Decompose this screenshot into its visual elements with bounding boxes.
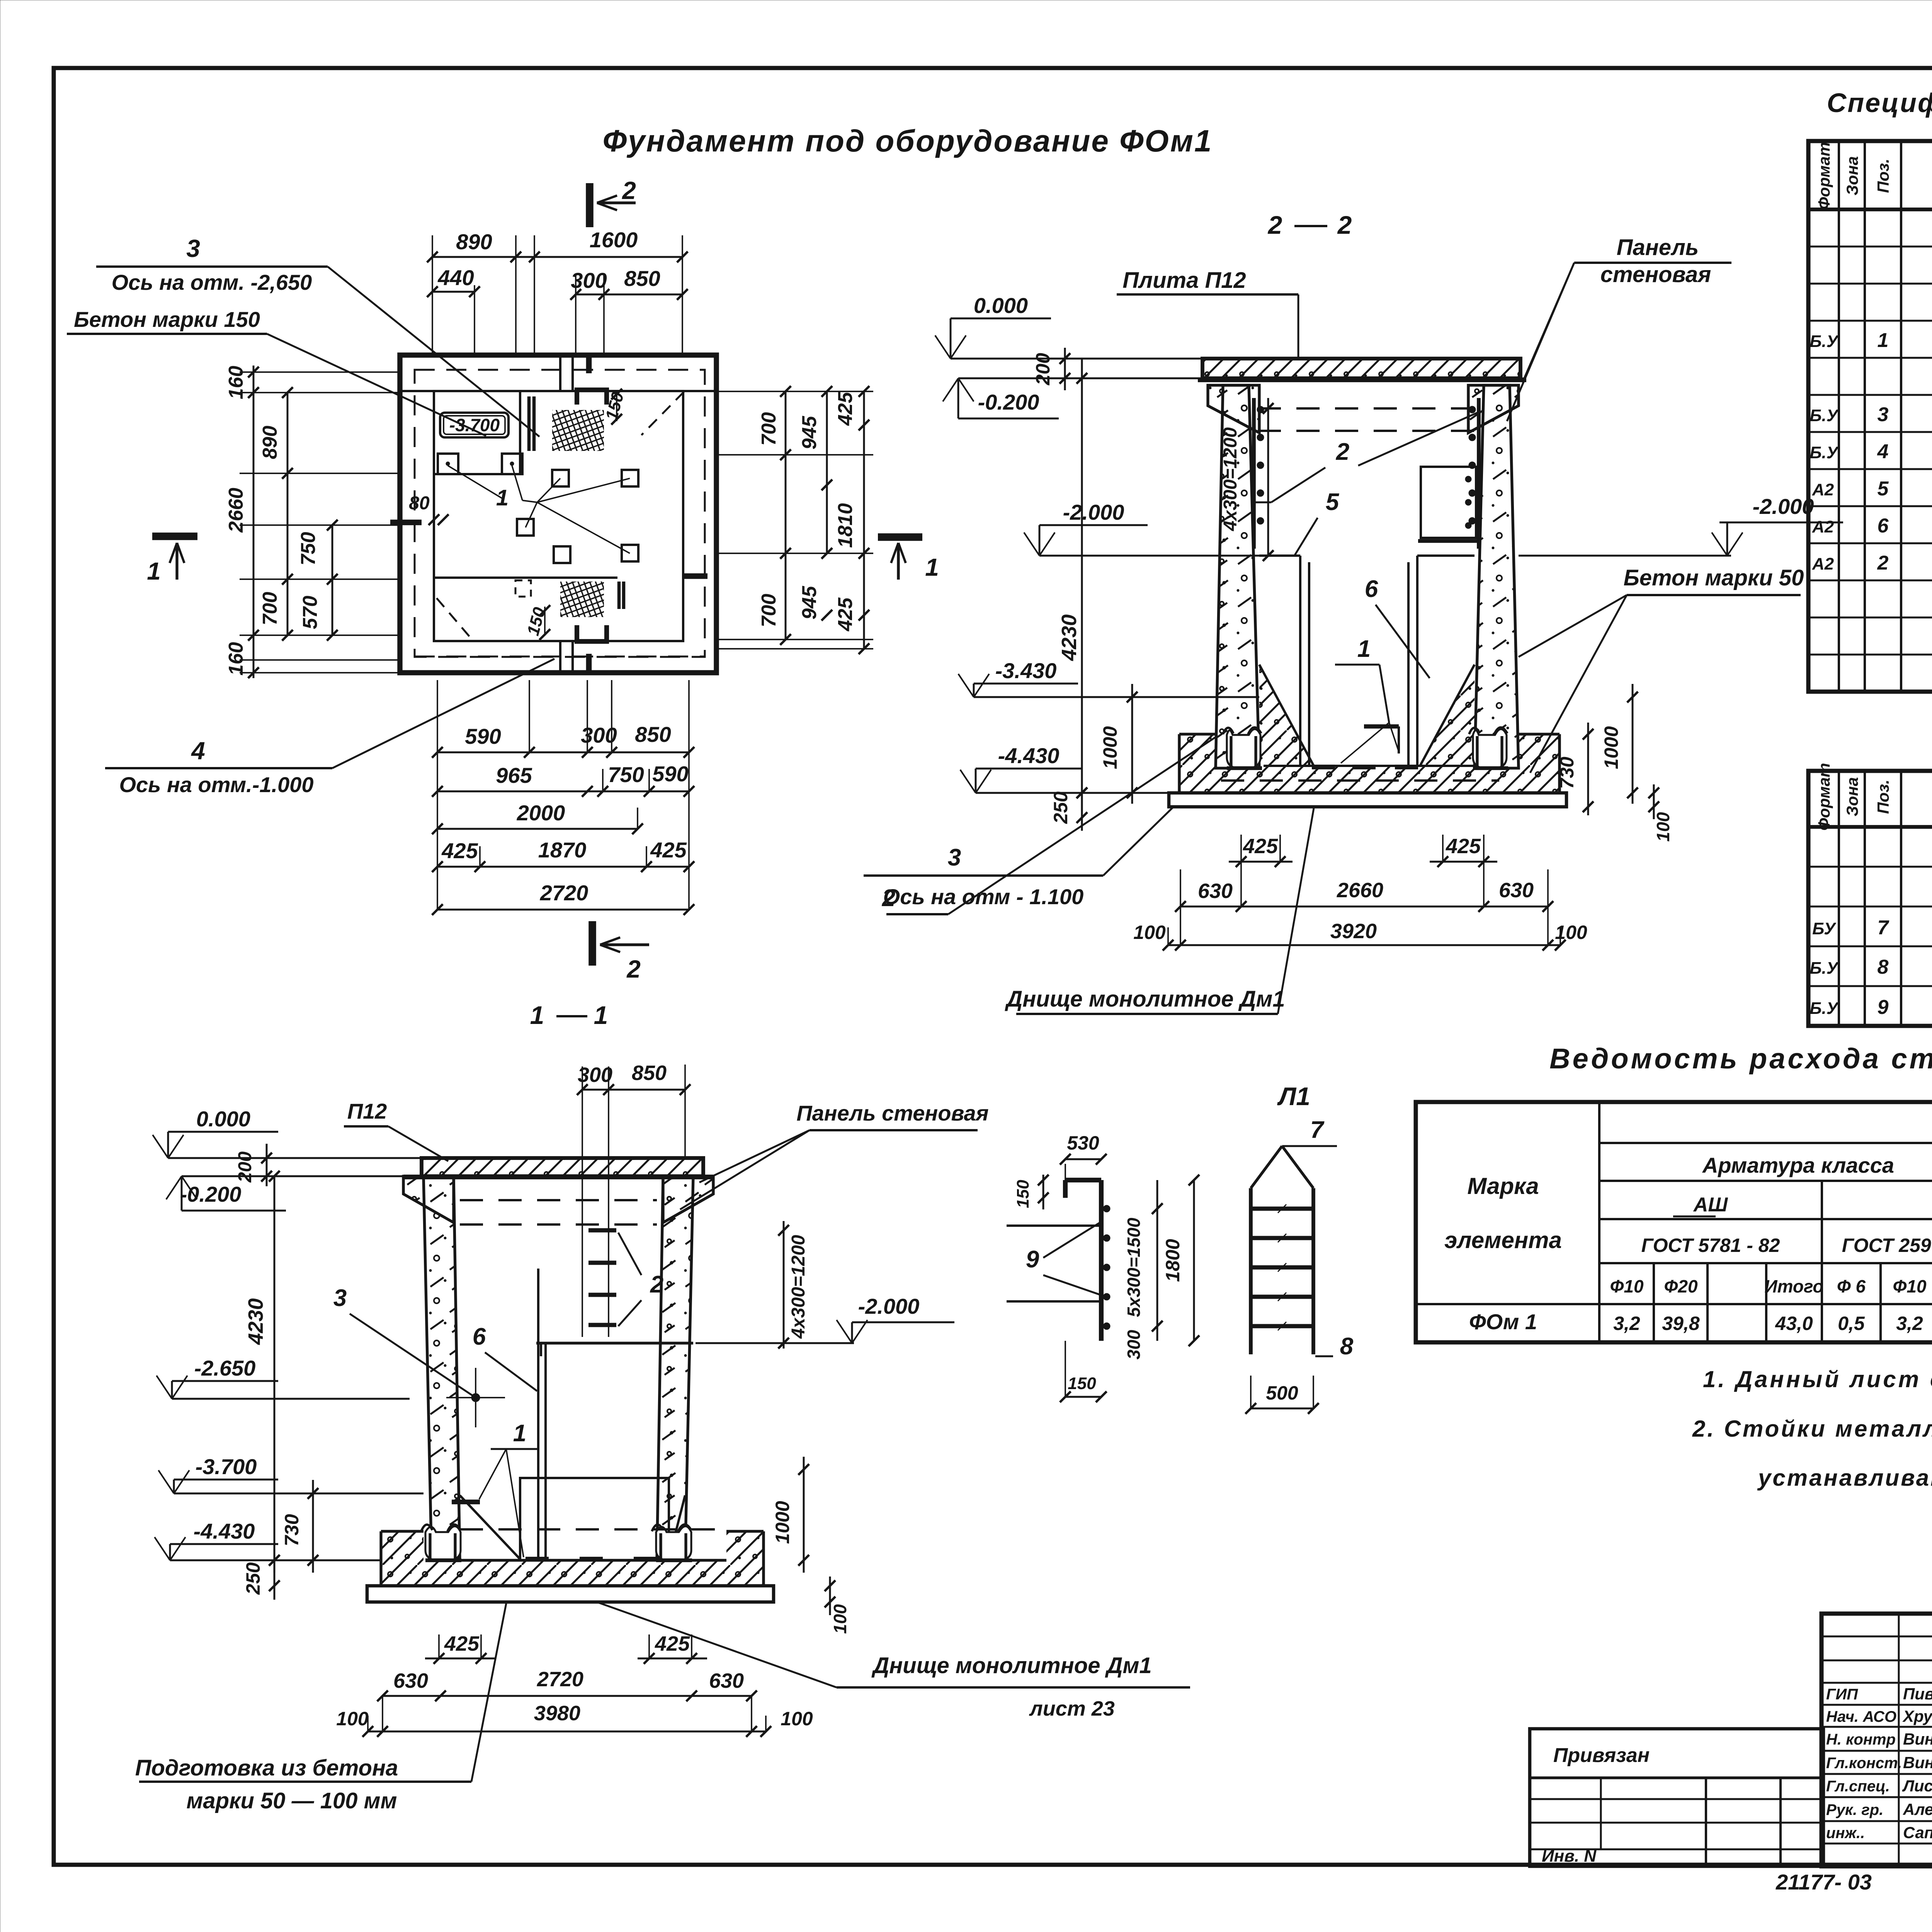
svg-text:1800: 1800 (1162, 1239, 1184, 1282)
ladder side view: platform connection lines (1007, 1225, 1099, 1227)
svg-text:4: 4 (190, 737, 205, 765)
svg-text:ГОСТ 5781 - 82: ГОСТ 5781 - 82 (1641, 1235, 1780, 1256)
svg-text:1600: 1600 (590, 228, 638, 252)
svg-text:850: 850 (632, 1061, 667, 1085)
svg-text:0.000: 0.000 (974, 293, 1028, 318)
svg-text:5x300=1500: 5x300=1500 (1124, 1218, 1144, 1317)
svg-text:Ф10: Ф10 (1893, 1276, 1926, 1296)
section 1-1: embed bold dashes (452, 1500, 480, 1504)
svg-text:Поз.: Поз. (1874, 780, 1892, 814)
svg-text:А2: А2 (1812, 480, 1834, 499)
svg-text:100: 100 (830, 1604, 850, 1634)
section 1-1: concrete block Бетон 50 (520, 1478, 669, 1560)
svg-text:9: 9 (1878, 996, 1889, 1019)
svg-text:750: 750 (608, 762, 644, 787)
plan dim row 890 / 1600 (432, 256, 682, 258)
svg-text:890: 890 (259, 426, 281, 459)
svg-text:П12: П12 (347, 1099, 387, 1123)
section mark 1 left: arrow (175, 543, 178, 580)
svg-text:630: 630 (1499, 879, 1534, 902)
plan bottom dim row 425 1870 425 (437, 866, 689, 868)
section 2-2: bottom dim 100 3920 100 (1168, 944, 1560, 946)
svg-text:0.000: 0.000 (196, 1107, 250, 1131)
svg-text:БУ: БУ (1812, 919, 1837, 938)
svg-text:700: 700 (758, 594, 780, 628)
svg-text:Рук. гр.: Рук. гр. (1826, 1801, 1883, 1818)
svg-text:200: 200 (1032, 353, 1054, 386)
svg-text:530: 530 (1067, 1132, 1099, 1154)
section mark 1 right: cut tick on plan (683, 573, 707, 579)
svg-text:-0.200: -0.200 (180, 1182, 241, 1206)
svg-text:2720: 2720 (537, 1668, 583, 1691)
svg-text:-4.430: -4.430 (194, 1519, 255, 1543)
svg-text:Винклер: Винклер (1903, 1730, 1932, 1748)
svg-text:-3.700: -3.700 (449, 415, 500, 435)
svg-text:Итого: Итого (1765, 1276, 1824, 1296)
section 2-2: dim 200 left (1064, 348, 1066, 390)
section mark 2 top: cut tick on plan (586, 354, 592, 373)
section mark 1 right: arrow (897, 543, 900, 580)
section mark 2 bottom: arrow (600, 943, 649, 946)
svg-text:Ось на отм - 1.100: Ось на отм - 1.100 (883, 884, 1084, 909)
section 2-2: dim 100 right (1653, 784, 1655, 819)
svg-text:1: 1 (925, 553, 939, 581)
svg-text:Б.У: Б.У (1810, 332, 1839, 351)
svg-text:500: 500 (1266, 1382, 1298, 1404)
section mark 2 top: bold bar (586, 183, 594, 227)
svg-text:Фундамент под оборудование: Фундамент под оборудование ФОм1 (603, 124, 1213, 158)
svg-text:39,8: 39,8 (1662, 1313, 1700, 1334)
svg-text:Зона: Зона (1843, 156, 1861, 195)
svg-text:Марка: Марка (1467, 1173, 1539, 1199)
svg-text:160: 160 (225, 642, 247, 676)
svg-text:6: 6 (1365, 576, 1378, 602)
plan bottom dim row 590 / 300 850 (437, 752, 587, 753)
plan bottom dim row 2000 (437, 828, 638, 830)
svg-text:Подготовка из бетона: Подготовка из бетона (135, 1755, 398, 1781)
svg-text:Сапрошина: Сапрошина (1903, 1823, 1932, 1842)
svg-text:21177- 03: 21177- 03 (1776, 1870, 1872, 1894)
svg-text:-2.000: -2.000 (858, 1294, 920, 1318)
section mark 2 bottom: cut tick on plan (586, 654, 592, 672)
plan view: dashed excavation outline (415, 370, 705, 657)
svg-text:850: 850 (635, 722, 671, 747)
svg-text:-2.000: -2.000 (1063, 500, 1124, 524)
svg-text:1: 1 (594, 1001, 608, 1029)
section 1-1: dim 730 left (312, 1480, 314, 1573)
svg-text:Ведомость расхода стали: Ведомость расхода стали на элемент , кг (1549, 1043, 1932, 1075)
svg-text:2000: 2000 (517, 801, 565, 825)
section 1-1: rebar dashes pos 2 (588, 1228, 616, 1233)
svg-text:4230: 4230 (1058, 614, 1081, 661)
plan top extension lines (432, 235, 433, 355)
ladder front view: dim 500 (1251, 1408, 1313, 1410)
section 2-2: wall socket cup right (1473, 729, 1507, 769)
svg-text:425: 425 (1243, 835, 1278, 858)
section 1-1: dim 250 left (274, 1549, 276, 1600)
plan left dim chain middle (890/700) (287, 393, 289, 635)
svg-text:1. Данный лист смотреть со: 1. Данный лист смотреть совместно с лист… (1703, 1366, 1932, 1392)
svg-text:2: 2 (650, 1271, 663, 1298)
plan view: anchor plate M6-1 left pair (438, 454, 458, 474)
section 1-1: right wall corbel (663, 1176, 713, 1223)
steel table grid (1416, 1102, 1932, 1342)
title block outer frame (1821, 1614, 1932, 1866)
svg-text:-2.650: -2.650 (194, 1356, 256, 1380)
svg-text:стеновая: стеновая (1600, 262, 1711, 287)
svg-text:1870: 1870 (538, 838, 587, 862)
ladder front view: label 7 leader (1282, 1145, 1337, 1147)
svg-text:устанавливать во время бето: устанавливать во время бетонирования дни… (1757, 1465, 1932, 1491)
svg-text:А2: А2 (1812, 517, 1834, 536)
plan view: double tick opening lower (617, 582, 621, 609)
svg-text:Хрупало: Хрупало (1902, 1707, 1932, 1725)
section mark 2 top: arrow (597, 201, 636, 204)
svg-text:43,0: 43,0 (1775, 1313, 1813, 1334)
plan left extension lines (240, 371, 400, 373)
section 2-2: left wall (1216, 385, 1259, 768)
svg-text:1: 1 (1357, 636, 1371, 662)
svg-text:лист 23: лист 23 (1029, 1697, 1115, 1720)
svg-text:630: 630 (709, 1669, 744, 1692)
svg-text:150: 150 (1068, 1374, 1096, 1393)
svg-text:Пивторак: Пивторак (1903, 1685, 1932, 1703)
privyazan table (1530, 1729, 1823, 1866)
svg-text:250: 250 (1050, 791, 1071, 824)
svg-text:1: 1 (513, 1420, 526, 1447)
section 2-2: wall rebar left with studs (1252, 398, 1256, 549)
svg-text:945: 945 (798, 416, 821, 450)
section 1-1: right wall (657, 1176, 693, 1559)
spec table 2 grid (1808, 771, 1932, 1026)
svg-text:6: 6 (1878, 515, 1889, 537)
svg-text:200: 200 (235, 1151, 255, 1183)
svg-text:3980: 3980 (534, 1702, 580, 1725)
plan dim row 440 / 300 850 (432, 291, 474, 293)
section 1-1: top slab П12 hatched (422, 1158, 703, 1176)
section 2-2: footing hatched mass (1179, 734, 1560, 793)
svg-text:2: 2 (1337, 211, 1352, 239)
plan view: anchor bolt squares group (552, 470, 569, 486)
plan view: bottom band divider lines (559, 641, 561, 673)
section 1-1: bottom dim 630 2720 630 (383, 1695, 752, 1697)
svg-text:1: 1 (496, 485, 509, 510)
section 1-1: dim 1000 right (803, 1457, 805, 1573)
plan left dim chain outer (160/2660/160) (253, 366, 255, 678)
svg-text:Гл.конст.: Гл.конст. (1826, 1755, 1902, 1772)
svg-text:1000: 1000 (1099, 726, 1121, 769)
svg-text:630: 630 (1198, 879, 1233, 903)
plan view: corner dashed diagonal upper-right (641, 392, 684, 435)
section mark 1 left: bold bar (152, 532, 197, 540)
section 2-2: inner tank wall right (1417, 554, 1475, 557)
spec table 1 grid (1808, 141, 1932, 692)
svg-text:160: 160 (225, 366, 247, 400)
svg-text:АШ: АШ (1693, 1194, 1728, 1216)
section mark 1 right: bold bar (878, 533, 922, 541)
plan view: leader line from Ось на отм -2,650 label (328, 267, 539, 437)
svg-text:2: 2 (626, 955, 641, 983)
svg-text:А2: А2 (1812, 554, 1834, 573)
svg-text:Привязан: Привязан (1553, 1744, 1650, 1767)
svg-text:3: 3 (948, 844, 961, 871)
plan view: leader from Ось на отм -1.000 (332, 659, 554, 768)
svg-text:Зона: Зона (1843, 777, 1861, 816)
svg-text:-4.430: -4.430 (998, 743, 1060, 768)
title block signature grid rows (1821, 1636, 1932, 1638)
plan view: dashed centerline bottom (415, 656, 705, 658)
svg-text:Плита П12: Плита П12 (1122, 268, 1246, 293)
plan bottom dim row 965 / 750 590 (437, 791, 603, 793)
plan view: top wall band divider lines (559, 355, 561, 391)
svg-text:3920: 3920 (1330, 920, 1377, 943)
svg-text:марки 50 — 100 мм: марки 50 — 100 мм (187, 1788, 397, 1813)
svg-text:Ф 6: Ф 6 (1837, 1276, 1866, 1296)
section 1-1: dim 200 left (266, 1144, 268, 1186)
svg-text:4x300=1200: 4x300=1200 (788, 1235, 809, 1339)
section 1-1: dim 4230 left (274, 1176, 276, 1573)
section mark 1 left: cut tick on plan (390, 520, 422, 526)
section 1-1: left wall corbel (403, 1176, 454, 1223)
svg-text:Спецификация фундамента под: Спецификация фундамента под оборудование… (1827, 88, 1932, 118)
svg-text:700: 700 (259, 592, 281, 626)
svg-text:100: 100 (1133, 922, 1166, 943)
svg-text:2660: 2660 (225, 488, 247, 533)
section mark 2 bottom: bold bar (588, 921, 596, 966)
section 2-2: inner tank wall left pos 5 (1259, 554, 1300, 557)
svg-text:945: 945 (798, 586, 821, 620)
section 2-2: dim 250 left (1081, 793, 1083, 831)
svg-text:5: 5 (1326, 489, 1340, 515)
svg-text:7: 7 (1878, 917, 1889, 939)
svg-text:4230: 4230 (244, 1298, 267, 1345)
svg-text:Н. контр: Н. контр (1826, 1731, 1896, 1748)
svg-text:0,5: 0,5 (1838, 1313, 1865, 1334)
section 1-1: bottom dim 425 left (425, 1658, 495, 1660)
section 2-2: bottom dim 425 right (1430, 861, 1497, 863)
section 1-1: dashed line above footing (460, 1528, 715, 1531)
svg-text:3,2: 3,2 (1613, 1313, 1640, 1334)
svg-text:Л1: Л1 (1277, 1082, 1310, 1111)
svg-text:850: 850 (624, 266, 660, 291)
svg-text:1000: 1000 (772, 1501, 793, 1544)
svg-text:1: 1 (147, 557, 161, 585)
section 2-2: dim 4x300=1200 (1267, 398, 1269, 556)
svg-text:Инв. N: Инв. N (1542, 1847, 1597, 1866)
svg-text:1: 1 (1878, 329, 1889, 352)
section 1-1: bold bearing line under slab (403, 1175, 713, 1179)
section 2-2: dim 1000 right (1632, 684, 1634, 804)
plan view: corner dashed diagonal lower-left (437, 598, 473, 641)
svg-text:100: 100 (781, 1708, 813, 1730)
svg-text:425: 425 (834, 392, 857, 426)
section 2-2: right wall top corbel (1468, 385, 1519, 433)
svg-text:100: 100 (1653, 812, 1673, 842)
svg-text:425: 425 (650, 838, 687, 862)
svg-text:Винклер: Винклер (1903, 1753, 1932, 1772)
svg-text:2: 2 (882, 885, 895, 912)
plan view: bottom wall band inner edge (434, 577, 617, 579)
svg-text:ГИП: ГИП (1826, 1686, 1858, 1703)
title block signature grid columns (1898, 1614, 1900, 1866)
svg-text:-0.200: -0.200 (978, 390, 1039, 414)
section 2-2: wall rebar right with studs (1477, 398, 1481, 549)
svg-text:2: 2 (1877, 552, 1889, 574)
svg-text:4x300=1200: 4x300=1200 (1220, 427, 1241, 532)
svg-text:150: 150 (1014, 1180, 1032, 1208)
svg-text:300: 300 (1124, 1330, 1144, 1359)
svg-text:9: 9 (1026, 1246, 1039, 1273)
svg-text:6: 6 (473, 1323, 486, 1350)
svg-text:Панель стеновая: Панель стеновая (796, 1101, 988, 1125)
svg-text:Гл.спец.: Гл.спец. (1826, 1778, 1890, 1795)
plan view: dashed anchor square (515, 580, 531, 597)
section 1-1: footing hatched mass (381, 1531, 764, 1586)
svg-text:Арматура класса: Арматура класса (1702, 1153, 1894, 1177)
section 1-1: platform level line (536, 1342, 693, 1344)
svg-text:Б.У: Б.У (1810, 443, 1839, 462)
svg-text:Б.У: Б.У (1810, 999, 1839, 1018)
svg-text:ГОСТ 2590-71*: ГОСТ 2590-71* (1842, 1235, 1932, 1256)
svg-text:250: 250 (242, 1562, 264, 1595)
svg-text:3,2: 3,2 (1896, 1313, 1923, 1334)
svg-text:100: 100 (336, 1708, 369, 1730)
svg-text:7: 7 (1310, 1117, 1325, 1143)
svg-text:Ф20: Ф20 (1664, 1276, 1697, 1296)
section 1-1: dashed panel lines (460, 1199, 657, 1201)
svg-text:Панель: Панель (1617, 235, 1699, 260)
svg-text:2: 2 (1336, 439, 1349, 465)
svg-text:1810: 1810 (834, 503, 857, 548)
svg-text:Формат: Формат (1815, 142, 1833, 209)
ladder front view: bent top to peak (1251, 1146, 1282, 1188)
svg-text:3: 3 (186, 235, 200, 262)
plan view: cross-hatch patch lower (560, 582, 604, 617)
svg-text:3: 3 (333, 1285, 347, 1311)
plan view: inner wall rectangle (434, 391, 683, 641)
svg-text:-2.000: -2.000 (1753, 494, 1814, 519)
svg-text:5: 5 (1878, 478, 1889, 500)
ladder side view: stringer bar (1099, 1180, 1104, 1341)
svg-text:ФОм 1: ФОм 1 (1469, 1310, 1537, 1334)
plan view: elevation box -3.700 (440, 413, 509, 437)
svg-text:2: 2 (1267, 211, 1282, 239)
ladder side view: dim 150 top (1043, 1175, 1044, 1209)
section 2-2: wall socket cup left (1227, 729, 1260, 769)
plan bottom extension lines (437, 680, 438, 752)
svg-text:80: 80 (409, 493, 430, 514)
svg-text:Бетон марки 150: Бетон марки 150 (74, 307, 260, 332)
section 2-2: left wall top corbel (1208, 385, 1259, 433)
svg-text:425: 425 (834, 597, 857, 632)
ladder front view: rails (1249, 1188, 1253, 1354)
plan view: leader web to position 1 (448, 466, 502, 498)
section 1-1: tank floor line (460, 1559, 726, 1561)
section 2-2: base preparation plate (1169, 793, 1566, 807)
svg-text:2660: 2660 (1337, 879, 1383, 902)
svg-text:2720: 2720 (540, 881, 588, 905)
svg-text:570: 570 (299, 596, 321, 629)
plan view: top wall band inner edge (400, 390, 716, 392)
section 2-2: tank floor bold dashes (1264, 765, 1475, 767)
section 1-1: dim 4x300=1200 right (783, 1221, 785, 1349)
svg-text:700: 700 (758, 412, 780, 446)
svg-text:890: 890 (456, 230, 492, 254)
section 1-1: fillet lines (460, 1495, 520, 1559)
section 1-1: left wall (423, 1176, 460, 1559)
svg-text:425: 425 (1446, 835, 1481, 858)
svg-text:425: 425 (444, 1632, 480, 1655)
plan right extension lines (716, 391, 873, 392)
ladder side view: top hook (1065, 1178, 1101, 1182)
svg-text:4: 4 (1877, 440, 1889, 463)
plan bottom dim row 2720 (437, 909, 689, 911)
section 1-1: bottom dim 100 3980 100 (368, 1731, 766, 1733)
svg-text:425: 425 (655, 1632, 690, 1655)
svg-text:Днище монолитное Дм1: Днище монолитное Дм1 (1004, 986, 1285, 1012)
svg-text:Алехова: Алехова (1903, 1800, 1932, 1818)
section 2-2: fillet right hatched (1420, 665, 1475, 766)
svg-text:590: 590 (465, 724, 501, 748)
svg-text:-3.700: -3.700 (196, 1454, 257, 1479)
svg-text:3: 3 (1878, 403, 1889, 426)
section 1-1: wall socket cup left (425, 1526, 461, 1561)
svg-text:Б.У: Б.У (1810, 406, 1839, 425)
svg-text:Ось на отм. -2,650: Ось на отм. -2,650 (112, 270, 312, 294)
svg-text:1000: 1000 (1600, 726, 1622, 769)
plan view: pipe sleeve bracket top (577, 390, 607, 405)
svg-text:Ось на отм.-1.000: Ось на отм.-1.000 (119, 772, 313, 797)
ladder side view: dim 530 (1065, 1158, 1101, 1160)
section 1-1: wall socket cup right (656, 1526, 691, 1561)
svg-text:инж..: инж.. (1826, 1825, 1865, 1842)
plan view: outer foundation wall outline (400, 355, 716, 673)
plan left dim chain inner (750/570) (332, 525, 333, 635)
section 2-2: right wall (1475, 385, 1519, 768)
svg-text:730: 730 (1556, 757, 1578, 789)
svg-text:Лисичкин: Лисичкин (1902, 1777, 1932, 1795)
svg-text:Бетон марки 50: Бетон марки 50 (1624, 565, 1804, 590)
svg-text:Днище монолитное Дм1: Днище монолитное Дм1 (871, 1653, 1151, 1678)
svg-text:Формат: Формат (1815, 763, 1833, 830)
section 2-2: dim 730 right (1587, 723, 1589, 815)
svg-text:-3.430: -3.430 (995, 658, 1057, 683)
svg-text:Б.У: Б.У (1810, 959, 1839, 978)
svg-text:8: 8 (1878, 956, 1889, 978)
section 2-2: dim 4230 left (1081, 359, 1083, 811)
svg-text:элемента: элемента (1444, 1227, 1562, 1253)
section 1-1: dim 100 right (829, 1577, 831, 1615)
ladder side view: rung studs (1103, 1205, 1110, 1212)
svg-text:Нач. АСО: Нач. АСО (1826, 1708, 1896, 1725)
plan right dim chain 700/945/425 top (785, 391, 787, 639)
section 2-2: dashed panel lines (1258, 407, 1481, 410)
svg-text:730: 730 (281, 1514, 303, 1546)
plan view: double tick opening upper (527, 396, 531, 451)
svg-text:750: 750 (297, 532, 320, 566)
section 1-1: base preparation plate (367, 1586, 774, 1602)
section 1-1: bottom dim 425 right (638, 1658, 707, 1660)
section 2-2: bottom dim 630 2660 630 (1180, 906, 1548, 908)
section 2-2: bold bearing line under slab (1198, 378, 1526, 382)
plan view: level mark leader line from Бетон марки 150 label (267, 334, 486, 436)
svg-text:590: 590 (652, 762, 688, 786)
section 1-1: drain pipe pos 6 vertical lines (537, 1269, 539, 1560)
ladder side view: dim 1800 (1193, 1180, 1195, 1341)
section 2-2: bottom dim 425 left (1229, 861, 1293, 863)
section 2-2: top slab П12 hatched (1202, 359, 1520, 378)
plan view: pipe sleeve bracket bottom (577, 625, 607, 641)
